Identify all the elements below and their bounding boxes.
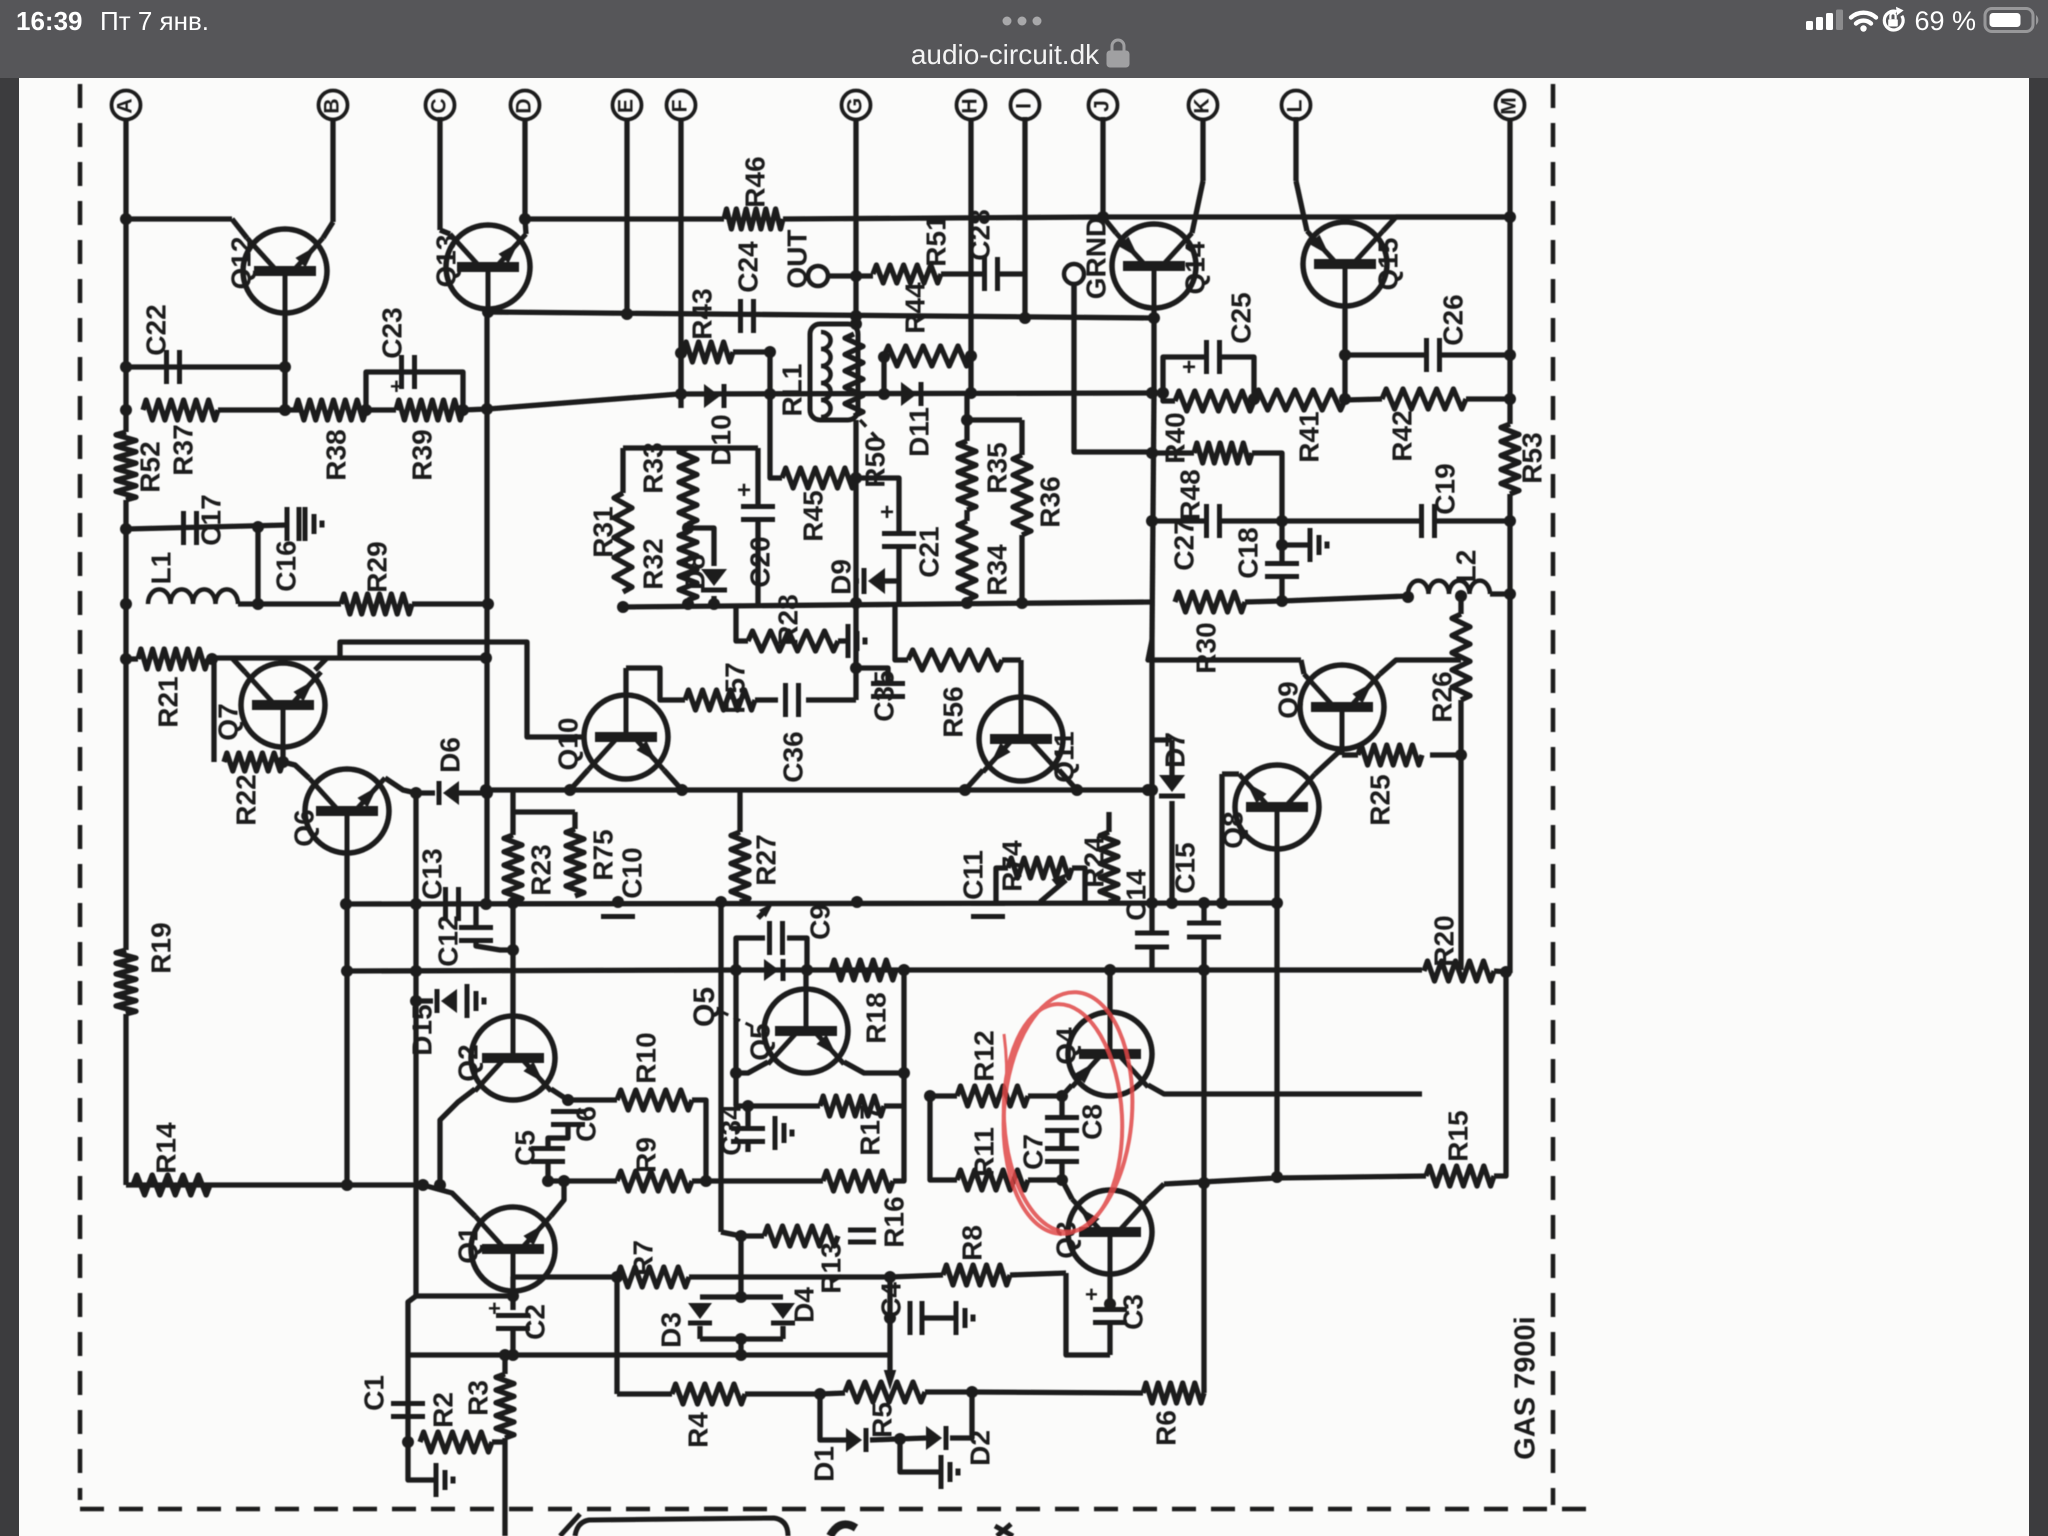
svg-text:D11: D11 — [903, 407, 934, 457]
wire R57 to C36 — [755, 697, 778, 702]
svg-text:Пт 7 янв.: Пт 7 янв. — [100, 6, 209, 36]
capacitor C17 — [181, 511, 186, 545]
junction R44 — [878, 351, 890, 363]
junction R41 right — [1339, 393, 1351, 405]
svg-text:R27: R27 — [750, 834, 781, 885]
wire R4 row left — [617, 1391, 672, 1396]
wifi icon — [1851, 13, 1876, 32]
svg-text:R46: R46 — [739, 156, 770, 207]
wire R3 bottom — [502, 1438, 507, 1536]
resistor R23 (vertical) — [504, 835, 522, 902]
capacitor C20 — [741, 504, 775, 509]
wire C4 down — [887, 1318, 892, 1355]
wire Q5 right col — [901, 970, 906, 1106]
wire C14 bend — [1149, 947, 1154, 970]
capacitor C10 — [601, 901, 635, 906]
svg-text:C14: C14 — [1120, 869, 1151, 921]
capacitor C2 — [496, 1313, 530, 1318]
wire C5 bottom — [545, 1162, 550, 1181]
resistor R53 (vertical on M) — [1501, 424, 1519, 494]
svg-text:R21: R21 — [152, 676, 183, 727]
svg-text:Q14: Q14 — [1179, 241, 1210, 294]
svg-text:R37: R37 — [167, 424, 198, 475]
svg-text:Q3: Q3 — [1050, 1221, 1081, 1258]
wire Q1 base bend — [423, 1185, 475, 1216]
wire D3D4 box bottom — [697, 1326, 702, 1339]
diode D9 real — [868, 568, 885, 594]
wire C1 gnd — [408, 1442, 434, 1480]
wire center vert to C35 — [853, 607, 858, 700]
wire D6 leads — [416, 790, 435, 795]
wire node C stub — [437, 117, 442, 230]
node G terminal — [842, 91, 871, 120]
wire Q15 emitter bend — [1383, 217, 1510, 231]
junction R48 left — [1146, 447, 1158, 459]
wire R25 right bend — [1430, 700, 1461, 755]
capacitor C11 — [971, 901, 1005, 906]
wire box top 448 — [623, 445, 758, 450]
bottom partial rounded box — [575, 1518, 788, 1536]
svg-text:R3: R3 — [462, 1380, 493, 1416]
capacitor C34 — [731, 1126, 765, 1131]
svg-text:R41: R41 — [1293, 411, 1324, 462]
wire R43 right bend — [733, 352, 770, 394]
junction R15 — [1198, 1177, 1210, 1189]
svg-text:+: + — [1085, 1282, 1098, 1307]
node K terminal — [1189, 91, 1218, 120]
svg-text:R52: R52 — [134, 441, 165, 492]
wire R39 to Q13col — [463, 409, 487, 410]
wire R2 to R3 — [492, 1439, 505, 1444]
wire Q3 collector down — [1107, 1274, 1112, 1304]
svg-text:Q1: Q1 — [452, 1226, 483, 1263]
wire R11 right — [1028, 1177, 1062, 1182]
junction R20 M — [1500, 966, 1512, 978]
wire Q14 base bend — [1103, 217, 1116, 233]
relay RL1 box — [810, 324, 858, 420]
ground D1D2 — [939, 1455, 944, 1489]
resistor R4 — [672, 1384, 745, 1404]
transistor Q1 — [471, 1207, 555, 1291]
junction Q2 left elbow — [434, 1179, 446, 1191]
svg-text:R26: R26 — [1426, 671, 1457, 722]
wire R36 top link — [967, 417, 1022, 422]
resistor R28 — [748, 631, 838, 651]
wire top bus y219 left — [126, 216, 232, 221]
junction rail658 — [480, 652, 492, 664]
wire R3 top — [502, 1355, 507, 1374]
svg-text:C2: C2 — [519, 1304, 550, 1340]
svg-text:C5: C5 — [509, 1130, 540, 1166]
svg-text:K: K — [1191, 98, 1214, 113]
wire C18 leads — [1279, 521, 1284, 563]
capacitor C35 — [871, 681, 905, 686]
resistor R48 — [1194, 443, 1252, 463]
wire R7 left — [560, 1274, 617, 1279]
svg-text:+: + — [1182, 354, 1196, 381]
wire node A stub — [123, 119, 128, 219]
resistor R31 (vertical) — [614, 493, 632, 592]
wire C15 col — [1201, 903, 1206, 923]
wire D gnd stub — [900, 1439, 939, 1472]
wire node G stub — [853, 118, 858, 326]
resistor R74 trimmer — [1008, 858, 1072, 878]
wire node K stub — [1200, 119, 1205, 181]
wire OUT row — [828, 273, 873, 278]
wire R33-R32 mid — [685, 524, 690, 532]
battery icon — [1985, 9, 2038, 32]
resistor R46 — [724, 209, 783, 229]
svg-text:Q15: Q15 — [1372, 238, 1403, 291]
resistor R8 — [943, 1265, 1010, 1285]
label C9 plus arrow — [758, 908, 768, 918]
resistor R11 — [957, 1170, 1028, 1190]
junction x890 — [884, 1312, 896, 1324]
wire Q11 diag exits — [965, 770, 983, 790]
wire D9 leads — [856, 578, 859, 583]
svg-text:16:39: 16:39 — [16, 6, 83, 36]
svg-text:C9: C9 — [804, 904, 835, 940]
wire Q14 collector — [1151, 308, 1156, 393]
junction C5 bottom — [542, 1175, 554, 1187]
node F terminal — [667, 91, 696, 120]
diode D15 — [441, 989, 457, 1013]
resistor R38 — [295, 400, 366, 420]
svg-text:R24: R24 — [1078, 836, 1109, 888]
junction Q8 col — [1271, 897, 1283, 909]
svg-text:R45: R45 — [797, 490, 828, 541]
transistor Q14 — [1112, 224, 1196, 308]
vertical 1461 down — [1458, 755, 1463, 970]
diode D2 — [926, 1426, 942, 1450]
diode D10 (on bus394) — [704, 384, 720, 408]
wire A bus mid — [123, 500, 128, 950]
wire R9 wires — [548, 1178, 617, 1183]
junction C27 — [1146, 515, 1158, 527]
wire Q13 base bend — [440, 230, 450, 234]
wire Q13 emitter to D — [525, 219, 526, 234]
wire D8 feed — [688, 528, 714, 566]
wire Q9 collector — [1339, 749, 1344, 755]
capacitor C15 — [1187, 921, 1221, 926]
wire Q6 collector — [344, 853, 349, 904]
junction Q1 emitter — [558, 1175, 570, 1187]
ground after R28 — [846, 624, 851, 658]
diode D8 — [701, 569, 727, 586]
resistor R43 — [683, 342, 733, 362]
wire R10 right bend — [692, 1100, 706, 1181]
junction D3D4 top — [735, 1291, 747, 1303]
ground C1 — [434, 1463, 439, 1497]
svg-text:Q7: Q7 — [212, 703, 243, 740]
wire Q1 collector down — [510, 1291, 515, 1310]
resistor R21 — [138, 649, 208, 669]
wire R31 top — [620, 448, 625, 493]
junction bus790 — [480, 784, 492, 796]
wire Q8 emitter diag — [1315, 749, 1342, 774]
svg-text:R39: R39 — [406, 429, 437, 480]
wire rail642 — [340, 642, 584, 737]
vertical x721 — [718, 902, 723, 1232]
wire C2 bottom — [510, 1329, 515, 1355]
junction R14 — [341, 1179, 353, 1191]
wire R30 row — [1148, 640, 1301, 660]
wire node M stub — [1507, 119, 1512, 218]
address bar lock icon — [1108, 40, 1128, 66]
vertical x416 column — [413, 793, 418, 1296]
wire R48 right bend — [1252, 453, 1282, 521]
resistor R26 (vertical) — [1452, 614, 1470, 700]
junction R21 — [120, 653, 132, 665]
svg-text:C15: C15 — [1169, 842, 1200, 893]
svg-text:R30: R30 — [1190, 622, 1221, 673]
wire node L stub — [1293, 117, 1298, 181]
wire R23 R75 top — [510, 790, 515, 835]
svg-text:C4: C4 — [875, 1282, 906, 1318]
wire Q13 collector long — [484, 309, 489, 904]
svg-text:D1: D1 — [808, 1446, 839, 1482]
junction bus410 — [120, 404, 132, 416]
resistor R14 — [133, 1175, 210, 1195]
wire Q7 base bend — [232, 658, 245, 672]
junction C26 — [1339, 349, 1351, 361]
resistor R12 — [957, 1086, 1028, 1106]
junction R11R12 left — [924, 1090, 936, 1102]
wire x408 down — [405, 1355, 410, 1442]
status bar center dots — [1003, 17, 1012, 26]
svg-text:R5: R5 — [866, 1402, 897, 1438]
wire x416 bend — [416, 1293, 513, 1298]
capacitor C16 (series to ground) — [285, 507, 290, 541]
capacitor C26 — [1424, 338, 1429, 372]
svg-text:+: + — [880, 499, 894, 526]
wire GRND to R48 feed — [1074, 284, 1152, 452]
wire R36 top — [1019, 420, 1024, 455]
svg-text:C11: C11 — [957, 850, 988, 900]
wire R7 stub — [689, 1274, 890, 1279]
wire R37-R38 — [218, 407, 302, 412]
capacitor C13 (inline bus904) — [443, 887, 448, 921]
svg-text:Q9: Q9 — [1272, 681, 1303, 718]
resistor R39 — [396, 400, 463, 420]
junction Q3 coll — [1104, 1298, 1116, 1310]
junction bus970 — [730, 964, 742, 976]
transistor Q3 — [1068, 1190, 1152, 1274]
wire Q8 base col — [1219, 774, 1224, 903]
wire C26 row — [1345, 352, 1426, 357]
resistor R13 — [764, 1226, 838, 1246]
wire R8 right — [1010, 1273, 1066, 1275]
capacitor C36 — [783, 683, 788, 717]
svg-text:+: + — [737, 477, 751, 504]
wire Q12 emitter to B — [323, 222, 333, 238]
wire row1355 right — [741, 1352, 890, 1357]
junction R47 — [1276, 595, 1288, 607]
wire M bus mid — [1507, 494, 1512, 973]
resistor R44 — [884, 346, 971, 366]
resistor R29 — [341, 594, 412, 614]
diode D7 — [1159, 775, 1185, 792]
resistor R17 — [820, 1096, 884, 1116]
wire R48 left — [1152, 450, 1194, 455]
terminal GRND circle — [1064, 264, 1084, 284]
wire R26 top — [1458, 594, 1463, 614]
svg-text:D4: D4 — [788, 1287, 819, 1323]
diode D11 (on bus394) — [901, 382, 917, 406]
svg-text:C16: C16 — [270, 540, 301, 591]
wire R15 right bend — [1494, 972, 1506, 1176]
wire C14 col — [1149, 903, 1154, 933]
svg-text:G: G — [844, 98, 867, 114]
wire C28 to I — [997, 271, 1025, 276]
svg-text:R40: R40 — [1159, 412, 1190, 463]
wire R7 from Q1 — [513, 1277, 560, 1295]
wire R35 top — [964, 393, 969, 441]
wire Q15 collector — [1342, 306, 1347, 398]
svg-text:C22: C22 — [140, 304, 171, 355]
node M terminal — [1496, 91, 1525, 120]
wire C22 row — [126, 364, 285, 369]
svg-text:C28: C28 — [964, 209, 995, 260]
wire emitter bus y790 — [487, 787, 1148, 792]
svg-text:C18: C18 — [1232, 527, 1263, 578]
capacitor C18 — [1265, 561, 1299, 566]
svg-text:R53: R53 — [1516, 432, 1547, 483]
junction D7 bottom — [1166, 897, 1178, 909]
junction R5 right — [966, 1386, 978, 1398]
wire C7C8 mid — [1059, 1096, 1064, 1117]
wire bus970 left — [347, 970, 736, 971]
wire center vert G — [853, 420, 858, 607]
wire C23 loop — [366, 372, 463, 410]
resistor R15 — [1426, 1166, 1494, 1186]
wire C21 leads — [856, 478, 899, 533]
junction bus394 right — [965, 387, 977, 399]
svg-text:C10: C10 — [616, 847, 647, 898]
node C terminal — [426, 91, 455, 120]
svg-text:R10: R10 — [630, 1032, 661, 1083]
relay RL1 coil bumps — [821, 332, 831, 417]
svg-text:C36: C36 — [777, 731, 808, 782]
junction bus970 left — [341, 965, 353, 977]
svg-text:R4: R4 — [682, 1412, 713, 1448]
wire R12 right — [1028, 1093, 1062, 1098]
cellular signal icon — [1806, 10, 1843, 31]
wire Q2 diag exits — [440, 1089, 475, 1185]
wire R13 left — [741, 1233, 764, 1238]
capacitor C9 loop — [736, 938, 765, 970]
svg-text:R32: R32 — [637, 538, 668, 589]
svg-text:R18: R18 — [860, 992, 891, 1043]
svg-text:Q2: Q2 — [452, 1044, 483, 1081]
wire R57 bend — [626, 668, 685, 700]
junction D3D4 bottom — [735, 1333, 747, 1345]
svg-text:Q6: Q6 — [288, 809, 319, 846]
svg-text:D3: D3 — [655, 1312, 686, 1348]
svg-text:R25: R25 — [1364, 774, 1395, 825]
junction x416 top — [410, 787, 422, 799]
svg-text:E: E — [615, 99, 638, 113]
svg-text:Q10: Q10 — [552, 718, 583, 771]
wire Q6 emitter bend — [385, 778, 416, 793]
capacitor C12 (hook) — [459, 925, 493, 930]
resistor R50 (vertical) — [845, 334, 863, 416]
svg-text:+: + — [488, 1296, 501, 1321]
svg-text:R23: R23 — [525, 844, 556, 895]
wire R4 to R5 — [745, 1391, 820, 1396]
junction R3 top — [499, 1349, 511, 1361]
svg-text:R44: R44 — [899, 282, 930, 334]
trimmer R74 arrow — [1040, 880, 1066, 902]
svg-text:R42: R42 — [1386, 410, 1417, 461]
node I terminal — [1011, 91, 1040, 120]
capacitor C14 — [1135, 931, 1169, 936]
svg-text:C13: C13 — [416, 848, 447, 899]
junction R26 top — [1455, 590, 1467, 602]
wire node J stub — [1100, 117, 1105, 217]
wire Q10 diag exits — [570, 770, 588, 790]
svg-text:C6: C6 — [570, 1106, 601, 1142]
resistor R27 (vertical) — [731, 832, 749, 902]
junction 1461 — [1455, 749, 1467, 761]
wire bus902 — [346, 903, 1277, 904]
capacitor C4 — [908, 1301, 913, 1335]
junction dots top bus — [120, 213, 132, 225]
resistor R18 — [831, 960, 896, 980]
svg-text:C26: C26 — [1437, 294, 1468, 345]
wire R17 left — [736, 1103, 820, 1108]
transistor Q7 — [241, 663, 325, 747]
wire bus394 — [488, 393, 1152, 409]
junction L1 row — [120, 523, 132, 535]
wire C25 loop — [1163, 357, 1206, 393]
resistor R34 (vertical) — [958, 521, 976, 600]
junction R7 right — [884, 1271, 896, 1283]
transistor Q5 — [764, 989, 848, 1073]
svg-text:R35: R35 — [981, 442, 1012, 493]
svg-text:R20: R20 — [1428, 915, 1459, 966]
svg-text:+: + — [390, 374, 403, 399]
svg-text:R19: R19 — [145, 922, 176, 973]
wire bus970 — [736, 967, 1422, 972]
svg-text:GRND: GRND — [1080, 217, 1111, 299]
resistor R3 (vertical) — [496, 1374, 514, 1438]
svg-text:M: M — [1498, 97, 1521, 115]
wire node E stub — [624, 119, 629, 315]
wire D3D4 to 1355 — [738, 1339, 743, 1355]
junction C7 bottom — [1056, 1174, 1068, 1186]
resistor R52 (vertical on A bus) — [116, 432, 136, 500]
capacitor C1 real — [391, 1401, 425, 1406]
wire R56 to Q11 — [1002, 657, 1021, 662]
resistor R19 (vertical) — [116, 950, 136, 1014]
transistor Q6 — [305, 769, 389, 853]
wire R8 row — [890, 1275, 943, 1277]
wire R27 top — [737, 790, 742, 832]
node D terminal — [511, 91, 540, 120]
wire R11 left bend — [930, 1096, 957, 1180]
node B terminal — [319, 91, 348, 120]
wire L1 to R29 — [238, 601, 341, 606]
junction R22 — [277, 756, 289, 768]
transistor Q4 — [1068, 1012, 1152, 1096]
svg-text:R16: R16 — [878, 1196, 909, 1247]
svg-text:GAS 7900i: GAS 7900i — [1510, 1316, 1542, 1459]
junction C6 — [562, 1094, 574, 1106]
node J terminal — [1089, 91, 1118, 120]
svg-text:69 %: 69 % — [1914, 6, 1976, 36]
junction R29 right — [482, 598, 494, 610]
